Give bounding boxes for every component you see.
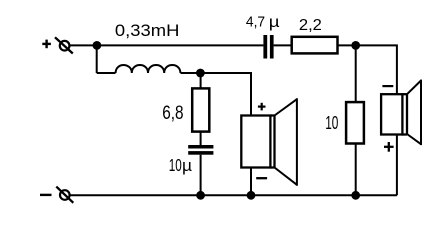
wire: node C down to resistor R2 [200, 73, 202, 88]
label - (woofer negative) [256, 177, 267, 179]
loudspeaker LS1 woofer [241, 98, 297, 186]
label 10u [169, 155, 193, 175]
node C junction dot [196, 69, 205, 78]
svg-text:6,8: 6,8 [162, 103, 183, 124]
wire: node A down to inductor branch [96, 45, 98, 73]
label - (tweeter negative) [382, 85, 393, 87]
resistor R2 6,8 [192, 88, 209, 131]
node B junction dot [351, 41, 360, 50]
wire: horizontal into inductor [97, 72, 116, 74]
wire: node C to woofer top corner [200, 73, 251, 116]
wire: resistor R3 down to bottom rail [355, 144, 357, 196]
wire: resistor R2 to capacitor C2 [200, 132, 202, 145]
wire: tweeter bottom to bottom rail corner [396, 135, 398, 196]
capacitor C2 10u (polarized plates) [188, 145, 213, 155]
node: junction dot C2/bottom rail [196, 191, 205, 200]
svg-text:10: 10 [325, 113, 338, 133]
wire: capacitor C2 down to bottom rail [200, 155, 202, 196]
wire: capacitor C1 to resistor R1 [274, 44, 292, 46]
terminal + (input positive) [55, 37, 73, 53]
label + (woofer positive) [258, 103, 266, 111]
svg-text:2,2: 2,2 [299, 17, 322, 34]
wire: resistor R1 to tweeter top corner [338, 45, 397, 94]
wire: node B down to resistor R3 [355, 45, 357, 102]
terminal - (input negative) [56, 187, 73, 203]
loudspeaker LS2 tweeter [381, 80, 421, 146]
label + (tweeter positive) [384, 142, 394, 152]
resistor R3 10 [346, 102, 364, 143]
capacitor C1 4,7u (series plates) [263, 35, 273, 59]
svg-text:µ: µ [269, 14, 280, 31]
node: junction dot R3/bottom rail [351, 191, 360, 200]
svg-text:0,33mH: 0,33mH [115, 22, 179, 40]
wire: inductor to node C [180, 72, 200, 74]
wire: plus terminal to node A [70, 44, 97, 46]
label - (minus sign) [40, 194, 52, 196]
node A junction dot [93, 41, 102, 50]
inductor L1 0,33mH [116, 65, 181, 73]
svg-text:µ: µ [182, 157, 193, 175]
label + (plus sign) [42, 40, 51, 49]
resistor R1 2,2 [292, 37, 338, 54]
wire: top rail node A to capacitor C1 [97, 44, 264, 46]
wire: bottom rail [70, 194, 397, 196]
node: junction dot woofer/bottom rail [247, 191, 256, 200]
svg-text:10: 10 [169, 155, 182, 175]
svg-text:4,7: 4,7 [246, 14, 265, 30]
wire: woofer bottom to bottom rail [250, 168, 252, 196]
